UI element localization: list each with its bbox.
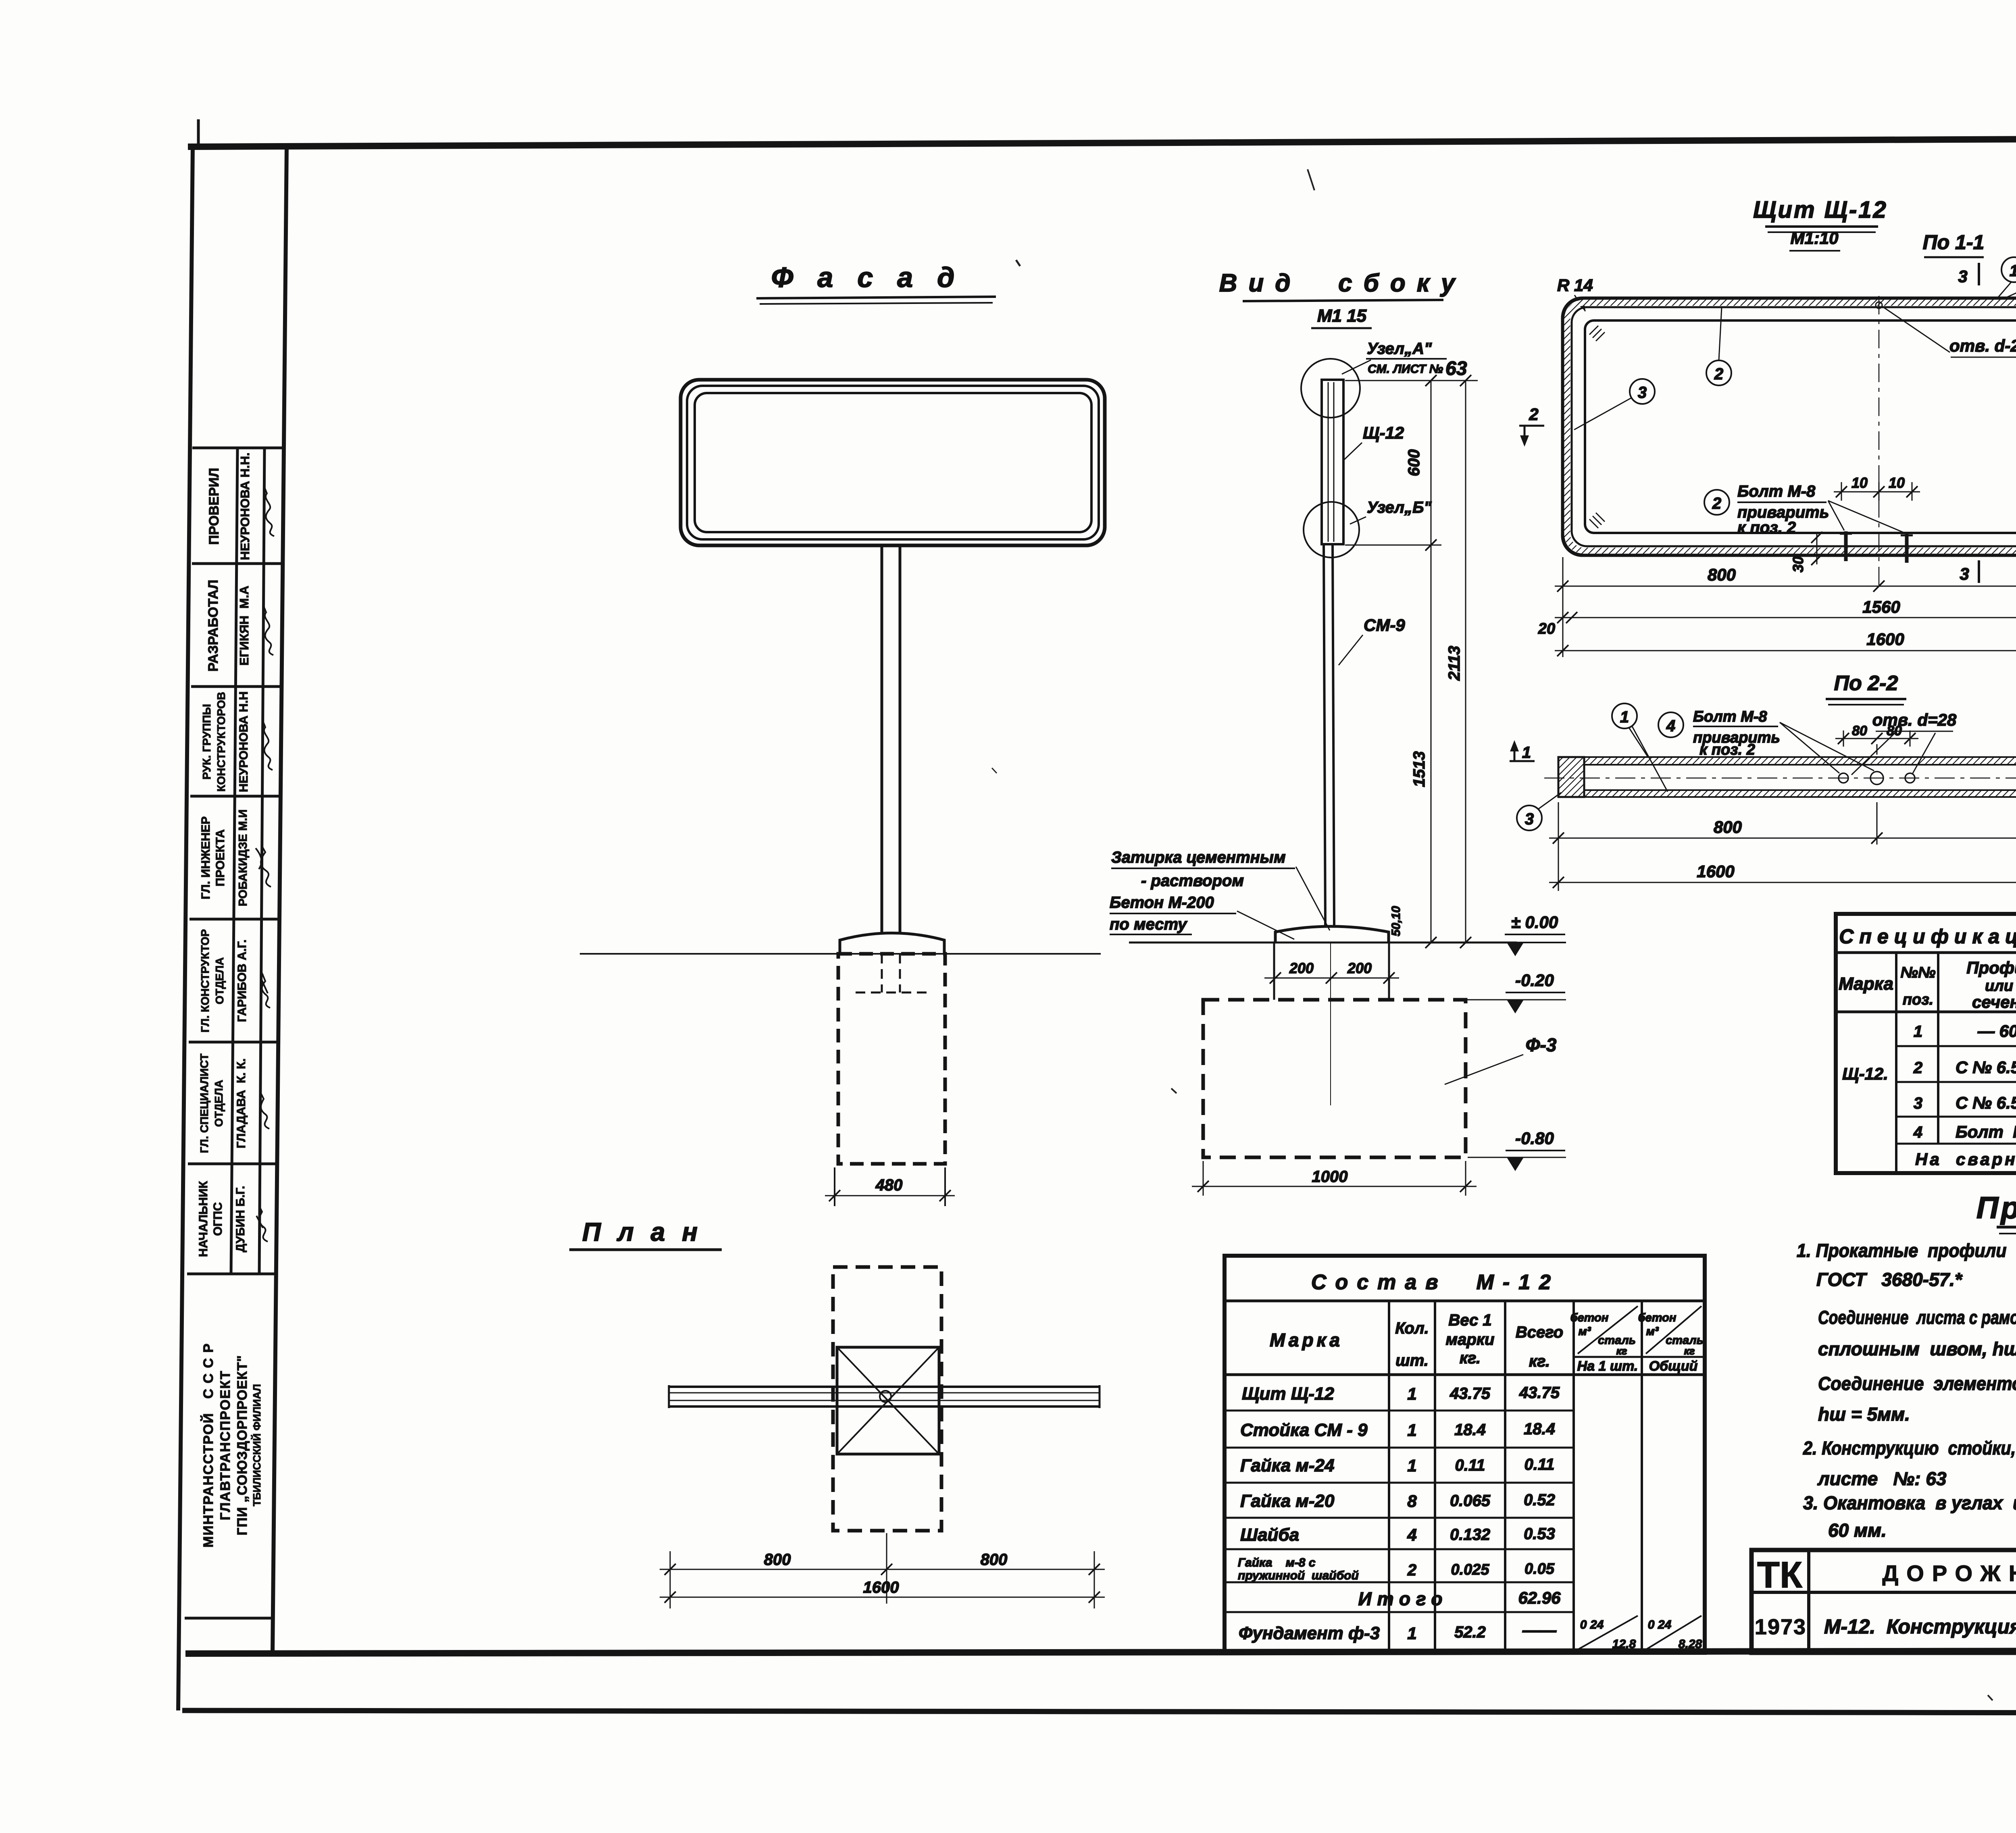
callout circle 1 sec2-2 [1612,703,1637,728]
sheet frame [178,110,2016,1713]
svg-text:18.4: 18.4 [1524,1420,1555,1438]
callout circle 1 [2001,257,2016,282]
svg-text:1600: 1600 [863,1579,899,1596]
section 2-2 bottom chord (hatched) [1558,790,2016,797]
svg-text:2: 2 [1913,1059,1922,1077]
svg-text:ТБИЛИССКИЙ ФИЛИАЛ: ТБИЛИССКИЙ ФИЛИАЛ [251,1384,263,1506]
svg-text:0 24: 0 24 [1648,1618,1672,1631]
svg-text:На сварные швы 1.5%.: На сварные швы 1.5%. [1915,1150,2016,1169]
side view dim extension lines [1345,381,1478,545]
svg-text:3. Окантовка в углах щита и: 3. Окантовка в углах щита имеет радиус п… [1803,1492,2016,1513]
svg-text:1: 1 [1407,1624,1416,1643]
node Б circle [1304,502,1359,558]
svg-text:4: 4 [1913,1124,1922,1141]
dim 80 80 sec2-2 [1835,730,1918,755]
sheet outer left edge [178,145,193,1710]
svg-text:ГЛ. ИНЖЕНЕР: ГЛ. ИНЖЕНЕР [199,816,212,899]
panel corner weld ticks [1589,326,2016,528]
svg-text:1513: 1513 [1410,751,1428,787]
svg-text:Щ-12.: Щ-12. [1842,1064,1888,1083]
svg-text:ГЛ. СПЕЦИАЛИСТ: ГЛ. СПЕЦИАЛИСТ [198,1054,210,1153]
stamp row 6: ГЛ. СПЕЦИАЛИСТ ОТДЕЛА / ГЛАДАВА К.К. [198,1054,248,1153]
svg-text:200: 200 [1289,960,1314,976]
svg-text:8.28: 8.28 [1679,1637,1702,1651]
svg-text:0 24: 0 24 [1580,1618,1604,1631]
foundation Ф-3 dashed box [1203,1000,1466,1157]
svg-text:Спецификация металла ВСТ-3: Спецификация металла ВСТ-3 [1839,925,2016,948]
svg-text:ДОРОЖНЫЕ ЗНАКИ: ДОРОЖНЫЕ ЗНАКИ [1882,1560,2016,1586]
svg-text:4: 4 [1666,717,1675,735]
svg-text:3: 3 [1958,267,1967,286]
svg-text:Фундамент ф-3: Фундамент ф-3 [1239,1623,1380,1643]
side view title underline [1243,300,1443,301]
svg-text:1: 1 [1620,708,1629,726]
svg-text:Болт М-8: Болт М-8 [1737,483,1816,500]
svg-text:ЕГИКЯН М.А: ЕГИКЯН М.А [237,586,251,666]
node A leader [1342,360,1371,374]
svg-text:РОБАКИДЗЕ М.И: РОБАКИДЗЕ М.И [237,809,250,906]
facade foundation below grade (dashed) [838,954,945,1164]
svg-text:М1:10: М1:10 [1790,229,1838,248]
dim 1000 [1192,1161,1477,1196]
svg-text:пружинной шайбой: пружинной шайбой [1238,1569,1359,1582]
facade foundation cap [840,933,944,954]
frame bottom edge [185,1650,2016,1654]
svg-text:М1 15: М1 15 [1317,306,1367,326]
svg-text:С № 6.5: С № 6.5 [1956,1058,2016,1077]
svg-text:800: 800 [764,1551,791,1569]
svg-text:60 мм.: 60 мм. [1828,1520,1887,1541]
svg-text:М-12. Конструкция указатель: М-12. Конструкция указательного знака 4.… [1824,1615,2016,1638]
svg-text:шт.: шт. [1395,1352,1429,1369]
svg-text:План: План [582,1217,714,1246]
plan anchor plate X brace [837,1347,939,1454]
plan post circle [880,1391,891,1402]
facade post [882,545,900,934]
svg-text:Итого: Итого [1358,1588,1448,1609]
svg-text:0.065: 0.065 [1450,1492,1491,1510]
svg-text:3: 3 [1638,384,1647,402]
svg-text:№№: №№ [1900,964,1935,981]
svg-text:0.11: 0.11 [1455,1456,1485,1474]
svg-text:1560: 1560 [1862,597,1900,616]
panel frame inner lines [1572,307,2016,546]
svg-text:480: 480 [875,1176,903,1194]
stamp row 7: НАЧАЛЬНИК ОГПС / ДУБИН Б.Г. [197,1181,247,1257]
svg-text:КОНСТРУКТОРОВ: КОНСТРУКТОРОВ [215,692,227,792]
svg-text:или: или [1985,978,2013,995]
svg-text:бетон: бетон [1638,1311,1677,1324]
svg-text:СМ-9: СМ-9 [1364,616,1405,635]
svg-text:НАЧАЛЬНИК: НАЧАЛЬНИК [197,1181,210,1257]
svg-text:0.11: 0.11 [1524,1456,1555,1473]
svg-text:1973: 1973 [1755,1615,1806,1639]
foundation cap side view [1275,926,1389,943]
svg-text:Щ-12: Щ-12 [1363,423,1404,442]
section 2-2 top chord (hatched) [1558,757,2016,765]
svg-text:по месту: по месту [1110,915,1187,933]
svg-text:0.52: 0.52 [1524,1491,1555,1509]
svg-text:кг.: кг. [1529,1352,1550,1370]
svg-text:1600: 1600 [1866,630,1904,649]
svg-text:СМ. ЛИСТ №: СМ. ЛИСТ № [1368,362,1443,376]
svg-text:80: 80 [1852,723,1867,739]
bolts through bottom flange [1840,531,1913,563]
svg-text:кг.: кг. [1460,1349,1481,1367]
svg-text:1: 1 [2010,262,2016,280]
svg-text:2. Конструкцию стойки, фундам: 2. Конструкцию стойки, фундамента и узло… [1803,1438,2016,1458]
svg-text:12.8: 12.8 [1612,1637,1636,1651]
svg-text:ГПИ „СОЮЗДОРПРОЕКТ": ГПИ „СОЮЗДОРПРОЕКТ" [235,1355,250,1535]
svg-text:ОТДЕЛА: ОТДЕЛА [213,957,226,1005]
svg-text:С № 6.5: С № 6.5 [1956,1093,2016,1112]
svg-text:4: 4 [1407,1525,1416,1544]
svg-text:43.75: 43.75 [1450,1385,1491,1402]
svg-text:м³: м³ [1646,1325,1659,1338]
svg-text:кг: кг [1684,1345,1695,1357]
svg-text:Соединение листа с рамой осу: Соединение листа с рамой осуществляется … [1818,1307,2016,1328]
dim line 2113 [1460,375,1471,948]
composition table Состав М-12 [1225,1256,1705,1653]
svg-text:2: 2 [1714,365,1723,383]
svg-text:Фасад: Фасад [771,262,979,293]
svg-text:50,10: 50,10 [1389,906,1403,936]
svg-text:По 2-2: По 2-2 [1834,672,1898,695]
svg-text:8: 8 [1407,1492,1417,1511]
post in side view [1324,544,1334,927]
svg-text:Марка: Марка [1270,1329,1343,1350]
svg-text:По 1-1: По 1-1 [1923,231,1985,254]
section mark 3 top [1978,263,1980,285]
svg-text:20: 20 [1538,620,1555,637]
section 2-2 left end channel [1558,757,1584,797]
svg-text:0.132: 0.132 [1450,1526,1490,1544]
svg-text:ДУБИН Б.Г.: ДУБИН Б.Г. [234,1186,247,1252]
svg-text:НЕУРОНОВА Н.Н.: НЕУРОНОВА Н.Н. [238,452,252,560]
svg-text:800: 800 [1714,818,1742,836]
svg-text:Гайка м-24: Гайка м-24 [1240,1456,1334,1475]
svg-text:3: 3 [1525,810,1534,828]
hole on centreline [1876,302,1882,308]
plan title underline [569,1248,722,1251]
svg-text:листе №: 63: листе №: 63 [1817,1468,1947,1489]
svg-text:ОГПС: ОГПС [211,1202,225,1236]
svg-text:ПРОВЕРИЛ: ПРОВЕРИЛ [206,468,222,545]
corner tick top-left [197,119,200,146]
svg-text:80: 80 [1887,723,1902,739]
stamp strip right edge [273,145,287,1653]
svg-text:-0.20: -0.20 [1515,971,1554,990]
facade sign board (triple rounded outline) [681,380,1105,545]
svg-text:к поз. 2: к поз. 2 [1699,741,1755,758]
svg-text:2: 2 [1407,1561,1416,1579]
plan dim extension lines [670,1551,1094,1608]
svg-text:Щит Щ-12: Щит Щ-12 [1242,1384,1334,1404]
callout circle 3 left [1630,379,1655,404]
svg-text:МИНТРАНССТРОЙ С С С Р: МИНТРАНССТРОЙ С С С Р [200,1343,216,1548]
panel dim extension lines [1563,557,2016,657]
svg-text:бетон: бетон [1570,1311,1609,1324]
svg-text:800: 800 [981,1551,1008,1569]
svg-text:РУК. ГРУППЫ: РУК. ГРУППЫ [200,704,213,780]
svg-text:R 14: R 14 [1557,276,1593,295]
svg-text:Всего: Всего [1516,1323,1563,1341]
left stamp strip table [185,448,283,1618]
svg-text:марки: марки [1446,1331,1495,1348]
svg-text:— 600×1.2: — 600×1.2 [1977,1022,2016,1040]
svg-text:3: 3 [1914,1094,1922,1112]
svg-text:отв. d=28: отв. d=28 [1872,710,1957,729]
svg-text:поз.: поз. [1903,991,1933,1008]
dim line 600 / 1513 [1425,375,1437,948]
svg-text:800: 800 [1708,565,1736,584]
svg-text:РАЗРАБОТАЛ: РАЗРАБОТАЛ [206,580,221,672]
svg-text:Примечание:: Примечание: [1976,1191,2016,1225]
sec2-2 dim 1600 [1549,877,2016,888]
svg-text:Узел„А": Узел„А" [1367,340,1432,358]
svg-text:30: 30 [1790,556,1806,572]
grout leaders [1237,867,1330,939]
svg-text:± 0.00: ± 0.00 [1511,913,1558,932]
svg-text:ПРОЕКТА: ПРОЕКТА [214,829,227,886]
stamp row 3: РУК. ГРУППЫ КОНСТРУКТОРОВ / НЕУРОНОВА Н.Н [200,691,250,792]
bolt note leaders [1828,501,1905,533]
svg-text:Бетон М-200: Бетон М-200 [1110,894,1214,911]
stamp signatures [256,485,274,1242]
svg-text:Марка: Марка [1839,974,1893,994]
plan dim 1600 [660,1592,1105,1603]
svg-text:2113: 2113 [1445,646,1463,681]
svg-text:2: 2 [1529,405,1538,424]
panel frame hatch band [1567,303,2016,551]
svg-text:1: 1 [1407,1456,1416,1475]
svg-text:ГЛ. КОНСТРУКТОР: ГЛ. КОНСТРУКТОР [199,929,211,1032]
svg-text:hш = 5мм.: hш = 5мм. [1818,1404,1910,1425]
svg-text:-0.80: -0.80 [1515,1129,1554,1148]
plan anchor plate square [837,1347,939,1454]
plan dim 800 800 [660,1564,1105,1575]
svg-text:1. Прокатные профили щита п: 1. Прокатные профили щита приняты по ГОС… [1797,1240,2016,1261]
svg-text:ОТДЕЛА: ОТДЕЛА [212,1080,225,1127]
ground line side view [1129,942,1517,944]
title block [1752,1550,2016,1653]
facade ground line [580,953,1101,955]
callout circle 4 sec2-2 [1658,712,1683,737]
svg-text:1600: 1600 [1697,862,1734,881]
svg-text:2: 2 [1712,495,1721,512]
stamp row 1: ПРОВЕРИЛ / НЕУРОНОВА Н.Н [206,452,252,560]
svg-text:10: 10 [1889,474,1905,491]
svg-text:Затирка цементным: Затирка цементным [1111,849,1286,866]
plan centre extension line [886,1533,887,1604]
svg-text:Соединение элементов рамы м: Соединение элементов рамы между собой -э… [1818,1373,2016,1394]
svg-text:Вид сбоку: Вид сбоку [1219,269,1466,297]
svg-text:На 1 шт.: На 1 шт. [1577,1359,1638,1374]
svg-text:отв. d-28: отв. d-28 [1949,336,2016,355]
svg-text:ГОСТ 3680-57.*: ГОСТ 3680-57.* [1816,1269,1963,1290]
node A circle [1301,359,1360,418]
stray scan marks [992,169,2016,1700]
svg-text:Кол.: Кол. [1395,1319,1429,1337]
callout circle 2 at bolt note [1704,490,1729,515]
facade post embedded (dashed) [856,954,927,992]
sostav header diagonals [1578,1306,1702,1650]
svg-text:10: 10 [1851,474,1868,491]
sheet outer bottom edge [182,1710,2016,1713]
section 2-2 centreline [1544,778,2016,779]
callout circle 2 upper [1706,360,1731,385]
weld note leaders [1997,261,2016,547]
specification table Спецификация металла ВСТ-3 [1836,914,2016,1173]
sec2-2 dim extension lines [1558,802,2016,891]
panel dim 20 1560 20 [1555,612,2016,623]
panel Щ-12 face: outer contour [1563,298,2016,555]
svg-text:1000: 1000 [1312,1168,1348,1186]
svg-text:0.53: 0.53 [1524,1525,1555,1543]
svg-text:ГАРИБОВ А.Г.: ГАРИБОВ А.Г. [235,940,249,1022]
stamp row 5: ГЛ. КОНСТРУКТОР ОТДЕЛА / ГАРИБОВ А.Г. [199,929,249,1032]
svg-text:Щит Щ-12: Щит Щ-12 [1753,197,1888,223]
svg-text:Профиль: Профиль [1966,958,2016,977]
svg-text:Вес 1: Вес 1 [1448,1311,1491,1329]
panel vertical centreline [1879,296,1880,589]
plan foundation outline (dashed) [833,1267,941,1531]
svg-text:62.96: 62.96 [1518,1588,1561,1607]
callout circle 3 left sec2-2 [1517,805,1542,830]
svg-text:Болт М-8: Болт М-8 [1693,708,1767,725]
svg-text:сплошным швом, hш = 2мм.: сплошным швом, hш = 2мм. [1818,1338,2016,1359]
svg-text:Гайка м-20: Гайка м-20 [1240,1491,1335,1511]
dim 200 200 [1264,972,1399,984]
svg-text:НЕУРОНОВА Н.Н: НЕУРОНОВА Н.Н [237,691,250,792]
svg-text:63: 63 [1445,358,1467,379]
post axis below ground [1330,943,1331,1105]
svg-text:ТК: ТК [1757,1554,1803,1596]
svg-text:- раствором: - раствором [1141,872,1244,890]
svg-text:1: 1 [1914,1023,1922,1040]
svg-text:ГЛАДАВА К. К.: ГЛАДАВА К. К. [235,1058,248,1148]
svg-text:Болт М8: Болт М8 [1956,1122,2016,1141]
svg-text:ГЛАВТРАНСПРОЕКТ: ГЛАВТРАНСПРОЕКТ [218,1370,233,1520]
svg-text:Общий: Общий [1649,1359,1698,1374]
svg-text:Стойка СМ - 9: Стойка СМ - 9 [1240,1420,1368,1440]
dim 10 10 at bolts [1834,482,1920,501]
svg-text:к поз. 2: к поз. 2 [1737,519,1796,537]
stamp row 4: ГЛ. ИНЖЕНЕР ПРОЕКТА / РОБАКИДЗЕ М.И [199,809,250,906]
foundation upper block edges [1274,943,1389,1000]
section mark 3 bottom [1978,560,1980,583]
stamp row 2: РАЗРАБОТАЛ / ЕГИКЯН М.А [206,580,251,672]
sec2-2 dim 800 800 [1549,832,2016,844]
bolt holes [1839,773,1848,783]
svg-text:0.025: 0.025 [1451,1561,1489,1578]
svg-text:52.2: 52.2 [1454,1623,1486,1641]
svg-text:кг: кг [1616,1345,1627,1357]
frame top edge [188,137,2016,147]
svg-text:0.05: 0.05 [1524,1560,1555,1577]
panel dim 1600 [1555,645,2016,656]
panel dim 800 | 800 [1555,580,2016,592]
svg-text:18.4: 18.4 [1454,1421,1486,1439]
svg-text:——: —— [1522,1621,1557,1640]
svg-text:Узел„Б": Узел„Б" [1367,499,1432,516]
svg-text:Шайба: Шайба [1240,1525,1299,1545]
svg-text:600: 600 [1405,449,1423,476]
svg-text:200: 200 [1347,960,1372,976]
plan sign channel bar [669,1385,1100,1408]
panel in side view [1322,380,1343,544]
svg-text:43.75: 43.75 [1519,1384,1560,1402]
stamp org cell: МИНТРАНССТРОЙ СССР [200,1343,263,1548]
svg-text:сечение: сечение [1972,992,2016,1011]
dim 30 at bolt [1811,532,1822,565]
svg-text:Гайка м-8 с: Гайка м-8 с [1238,1556,1316,1569]
svg-text:1: 1 [1522,744,1531,761]
svg-text:1: 1 [1407,1384,1416,1403]
facade title underline [756,297,996,304]
svg-text:1: 1 [1407,1421,1416,1440]
svg-text:Состав М-12: Состав М-12 [1311,1271,1560,1294]
svg-text:м³: м³ [1578,1325,1591,1338]
svg-text:3: 3 [1960,564,1969,583]
facade dim 480 [825,1167,955,1206]
svg-text:Ф-3: Ф-3 [1526,1034,1557,1055]
